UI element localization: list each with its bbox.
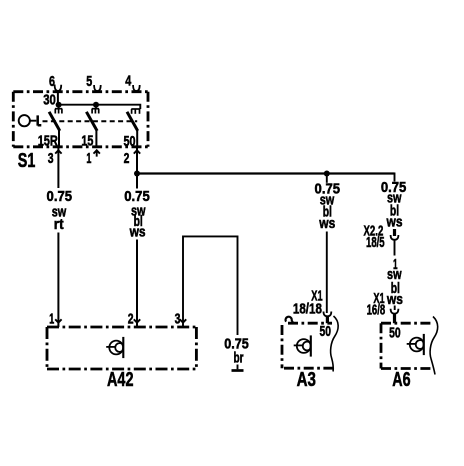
A3 corner hook xyxy=(286,317,294,323)
S1 pin 6 socket cup xyxy=(55,85,62,92)
node junction dot at A3 branch xyxy=(324,171,330,177)
node bus dot middle xyxy=(93,102,99,108)
svg-text:br: br xyxy=(234,351,244,367)
svg-text:A42: A42 xyxy=(107,368,134,391)
horn symbol in A6 xyxy=(407,334,424,355)
wire stub above A6 cup xyxy=(394,306,396,311)
connector X2.2 socket xyxy=(391,235,399,240)
horn symbol in A3 xyxy=(294,335,311,356)
contact comb left xyxy=(55,105,62,114)
switch S1 dash-dot box xyxy=(13,92,148,147)
wire terminal 30 bus xyxy=(59,105,141,109)
svg-text:50: 50 xyxy=(320,324,332,340)
svg-text:30: 30 xyxy=(43,92,56,108)
svg-text:50: 50 xyxy=(124,134,136,150)
mechanical coupling dashed line xyxy=(43,120,138,122)
svg-text:rt: rt xyxy=(54,217,64,233)
key symbol circle xyxy=(19,115,30,126)
svg-text:0.75: 0.75 xyxy=(124,189,150,205)
wire pin6 stub to bus xyxy=(57,91,59,105)
connector X1 socket at A6 xyxy=(391,309,399,314)
connector X2.2 pin xyxy=(393,229,396,236)
svg-text:15R: 15R xyxy=(38,134,59,150)
relay module A3 dash-dot box xyxy=(282,323,335,368)
wire arm 50 to terminal 2 xyxy=(136,130,138,147)
wire S1 pin2 down lower to A42 pin2 xyxy=(136,240,138,328)
wire main horizontal from pin2 junction xyxy=(137,172,395,174)
svg-text:50: 50 xyxy=(389,325,401,341)
S1 pin 4 socket cup xyxy=(133,85,140,91)
wire arm 15 to terminal 1 xyxy=(95,130,97,147)
wire right branch elbow xyxy=(394,173,396,182)
connector X1 socket at A3 xyxy=(324,312,332,317)
svg-text:3: 3 xyxy=(175,311,181,327)
A3 torn edge xyxy=(331,316,339,372)
svg-text:15: 15 xyxy=(81,134,93,150)
svg-text:ws: ws xyxy=(386,292,403,308)
svg-text:18/18: 18/18 xyxy=(293,301,322,317)
contact comb middle xyxy=(92,105,99,114)
wire S1 pin3 down lower to A42 pin1 xyxy=(57,233,59,328)
wire S1 pin3 down upper xyxy=(57,148,59,189)
S1 pin 1 chevron xyxy=(94,150,100,156)
wire below X2.2 xyxy=(394,240,396,256)
horn symbol in A42 xyxy=(106,337,123,358)
svg-text:1: 1 xyxy=(86,151,91,167)
svg-text:0.75: 0.75 xyxy=(47,189,73,205)
svg-text:3: 3 xyxy=(48,151,54,167)
switch arm 50 xyxy=(127,112,138,131)
switch arm 15 xyxy=(86,112,97,131)
key symbol link xyxy=(30,120,36,122)
starter relay A6 dash-dot box xyxy=(381,323,434,368)
control unit A42 dash-dot box xyxy=(47,327,196,369)
S1 pin 3 chevron xyxy=(55,150,61,153)
A42 pin 3 chevron xyxy=(180,319,186,322)
key symbol actuator bar xyxy=(38,115,42,125)
svg-text:A6: A6 xyxy=(392,368,410,391)
node junction dot at pin2 xyxy=(134,171,140,177)
svg-text:1: 1 xyxy=(49,311,54,327)
wire A3 branch upper stub xyxy=(326,174,328,183)
A6 torn edge xyxy=(430,317,438,375)
svg-text:S1: S1 xyxy=(18,149,36,172)
S1 pin 2 chevron xyxy=(134,150,140,153)
svg-text:ws: ws xyxy=(318,216,335,232)
wire S1 pin2 down upper xyxy=(136,148,138,189)
S1 pin 5 socket cup xyxy=(94,85,101,91)
svg-text:5: 5 xyxy=(86,74,92,90)
contact comb right xyxy=(131,109,140,114)
A42 pin 2 chevron xyxy=(134,319,140,322)
switch arm 15R xyxy=(49,112,60,131)
ground xyxy=(232,369,244,372)
wire ground stub xyxy=(237,365,239,370)
wire ground branch from A42 pin3 xyxy=(183,236,238,335)
svg-text:2: 2 xyxy=(128,311,134,327)
svg-text:ws: ws xyxy=(386,215,403,231)
wire arm 15R to terminal 3 xyxy=(58,130,60,147)
node bus dot left xyxy=(56,102,62,108)
svg-text:18/5: 18/5 xyxy=(366,235,385,251)
wire A3 branch lower xyxy=(326,232,328,314)
svg-text:16/8: 16/8 xyxy=(367,303,386,319)
svg-text:A3: A3 xyxy=(297,368,316,391)
svg-text:4: 4 xyxy=(125,74,132,90)
svg-text:ws: ws xyxy=(129,224,146,240)
A42 pin 1 chevron xyxy=(55,319,61,322)
svg-text:2: 2 xyxy=(124,151,130,167)
